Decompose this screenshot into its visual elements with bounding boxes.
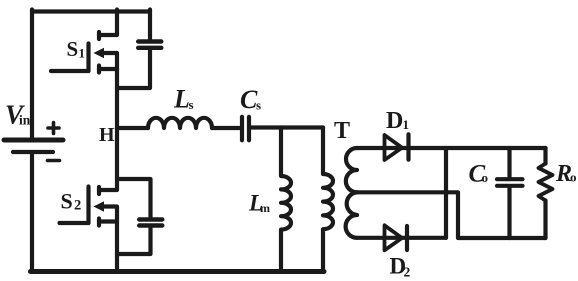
capacitor across S1 plate 2 [138,46,161,50]
capacitor across S2 bottom lead [117,226,151,254]
svg-text:s: s [189,97,194,112]
diode D2 triangle [385,225,403,250]
transformer T secondary top winding [346,148,357,192]
wire output top rail [446,146,546,150]
wire node H to Ls [117,126,148,130]
capacitor across S2 top lead [117,179,151,217]
wire output right side bottom [543,201,547,239]
top rail wire [32,9,150,13]
svg-text:1: 1 [403,117,410,132]
transistor S1 body stub [101,53,117,69]
transistor S2 drain wire from H [99,128,117,190]
svg-text:L: L [173,85,190,114]
transistor S1 source tick [97,66,101,73]
wire Cs to primary [251,125,323,129]
svg-text:m: m [260,201,270,215]
svg-text:T: T [334,118,350,144]
wire Ls to Cs [212,126,239,130]
capacitor across S1 bottom lead [117,48,150,88]
capacitor Co bottom lead [507,188,511,238]
battery Vin plate short [13,150,53,154]
transistor S1 body arrow [94,48,105,58]
diode D1 triangle [385,135,403,160]
transformer T secondary bottom winding [346,192,357,238]
capacitor Cs plate 1 [240,117,244,141]
transistor S2 drain tick [97,187,101,194]
plus sign [48,123,59,134]
wire left rail lower [30,153,34,272]
minus sign [48,159,60,163]
diode D1 cathode bar [406,134,410,159]
transistor S1 gate lead [51,69,89,73]
transformer T primary [323,128,333,272]
svg-text:in: in [19,113,31,128]
wire S1 source to H [115,69,119,128]
transistor S1 gate bar [86,44,90,72]
transistor S2 gate lead [60,221,89,225]
capacitor Co plate 1 [497,177,523,181]
transistor S1 drain wire [99,10,117,36]
capacitor across S2 plate 1 [139,217,162,221]
wire secondary bottom lead / D2 line [357,236,446,240]
inductor Ls [148,118,212,128]
capacitor across S1 top lead [148,10,152,42]
battery Vin plate long [4,138,63,143]
diode D2 cathode bar [405,226,409,250]
transistor S2 source tick [97,219,101,226]
svg-text:H: H [99,124,115,146]
transistor S2 body stub [101,207,117,222]
transistor S2 body arrow [94,201,105,211]
bottom rail wire [31,269,325,274]
wire D2 cathode up to top rail [444,148,448,238]
wire center tap [357,192,546,238]
svg-text:s: s [256,97,261,112]
inductor Lm branch [281,128,291,272]
svg-text:S: S [61,189,73,214]
transistor S2 source stub [99,219,117,223]
svg-text:D: D [386,108,403,134]
capacitor Co plate 2 [497,184,523,188]
wire S2 source to bottom rail [115,222,119,272]
svg-text:1: 1 [79,46,86,61]
wire output right side top [543,148,547,164]
wire left rail upper [30,10,34,139]
transistor S1 source stub [99,67,117,71]
svg-text:2: 2 [74,198,81,214]
capacitor across S2 plate 2 [139,223,162,227]
capacitor across S1 plate 1 [138,39,161,43]
svg-text:o: o [570,169,577,184]
resistor Ro zigzag [539,164,553,201]
transistor S1 drain tick [97,32,101,39]
capacitor Cs plate 2 [247,117,251,141]
svg-text:o: o [482,170,489,185]
wire secondary top lead / D1 line [357,146,446,150]
transistor S2 gate bar [86,187,90,224]
capacitor Co top lead [507,148,511,177]
svg-text:S: S [67,37,79,61]
svg-text:2: 2 [404,265,411,280]
